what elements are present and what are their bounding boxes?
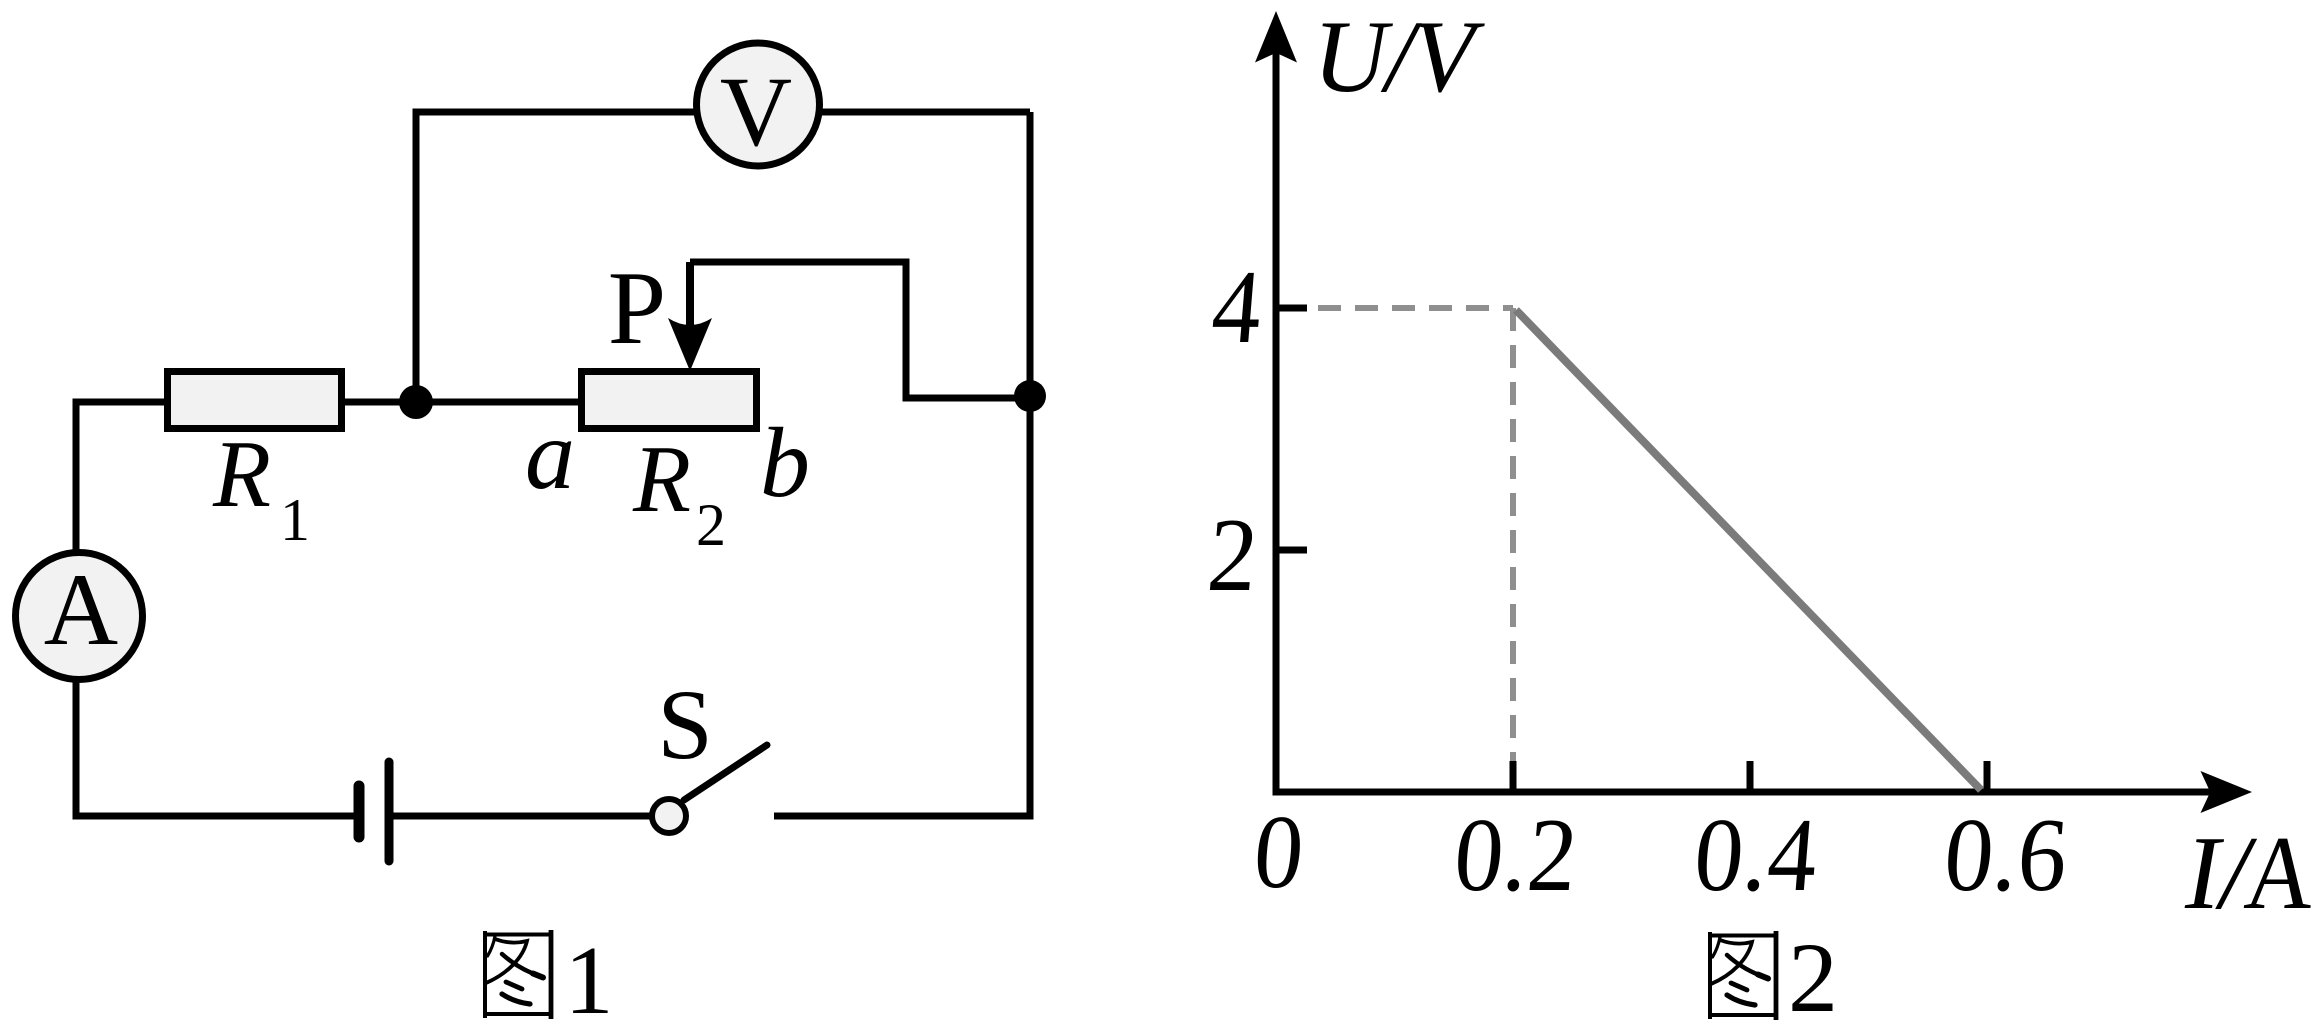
wire: switch to right vertical bbox=[774, 813, 1034, 820]
wire: main row left (A branch to R1) bbox=[73, 399, 168, 406]
svg-text:0.6: 0.6 bbox=[1940, 796, 2072, 913]
svg-text:0.4: 0.4 bbox=[1690, 796, 1822, 913]
y tick U=4 bbox=[1276, 305, 1307, 312]
y-axis arrowhead bbox=[1255, 11, 1297, 63]
figure label 图2 bbox=[1708, 931, 1778, 1020]
svg-text:4: 4 bbox=[1208, 248, 1266, 365]
svg-text:0.2: 0.2 bbox=[1450, 796, 1582, 913]
svg-text:2: 2 bbox=[1788, 922, 1838, 1028]
x-axis arrowhead bbox=[2201, 771, 2253, 813]
node: right junction bbox=[1014, 380, 1046, 412]
switch S lever bbox=[684, 745, 767, 800]
potentiometer R2 bbox=[582, 372, 757, 429]
dashed guide: vertical I=0.2 bbox=[1510, 308, 1516, 789]
svg-text:U/V: U/V bbox=[1313, 0, 1485, 114]
svg-text:2: 2 bbox=[1204, 496, 1262, 613]
battery: long thin plate bbox=[385, 762, 394, 861]
label 0.4 bbox=[1690, 796, 1822, 913]
figure label 图1 bbox=[483, 930, 553, 1019]
data line U-I bbox=[1516, 310, 1981, 790]
svg-text:1: 1 bbox=[280, 487, 310, 553]
wire: bottom row left (to battery) bbox=[73, 813, 356, 820]
label 0.2 bbox=[1450, 796, 1582, 913]
svg-text:1: 1 bbox=[565, 927, 614, 1028]
wire: left vertical above ammeter bbox=[73, 399, 80, 557]
svg-text:A: A bbox=[2241, 815, 2312, 931]
svg-text:R: R bbox=[632, 426, 691, 532]
svg-text:P: P bbox=[608, 249, 666, 366]
x-axis bbox=[1273, 789, 2213, 796]
svg-text:b: b bbox=[760, 407, 810, 518]
wire: left vertical below ammeter bbox=[73, 676, 80, 820]
label 0 bbox=[1250, 793, 1308, 910]
wire: wiper to right node bbox=[690, 262, 1030, 398]
wire: battery to switch bbox=[393, 813, 652, 820]
voltmeter V bbox=[697, 43, 820, 166]
wire: main row middle (R1 to R2) bbox=[345, 399, 581, 406]
svg-text:V: V bbox=[720, 56, 792, 167]
y tick U=2 bbox=[1276, 547, 1307, 554]
svg-text:2: 2 bbox=[696, 492, 726, 558]
x tick I=0.2 bbox=[1510, 761, 1517, 792]
y-axis bbox=[1273, 50, 1280, 792]
svg-text:R: R bbox=[212, 421, 271, 527]
switch S pivot circle bbox=[652, 799, 686, 833]
wiper P arrow bbox=[686, 262, 694, 332]
wire: right vertical (top wire down to bottom row) bbox=[1027, 112, 1034, 820]
battery: short thick plate bbox=[354, 786, 365, 837]
label 2 bbox=[1204, 496, 1262, 613]
label 0.6 bbox=[1940, 796, 2072, 913]
node: left junction bbox=[399, 385, 433, 419]
svg-text:S: S bbox=[657, 669, 713, 780]
x tick I=0.6 bbox=[1984, 761, 1991, 792]
x tick I=0.4 bbox=[1747, 761, 1754, 792]
svg-text:a: a bbox=[525, 399, 575, 510]
ammeter A bbox=[16, 553, 143, 680]
dashed guide: horizontal U=4 bbox=[1281, 305, 1513, 311]
wire: vertical branch up from left junction bbox=[413, 109, 420, 403]
resistor R1 bbox=[168, 372, 342, 429]
svg-text:A: A bbox=[44, 553, 118, 667]
svg-text:0: 0 bbox=[1250, 793, 1308, 910]
wire: top row through voltmeter bbox=[413, 109, 1031, 116]
label 4 bbox=[1208, 248, 1266, 365]
